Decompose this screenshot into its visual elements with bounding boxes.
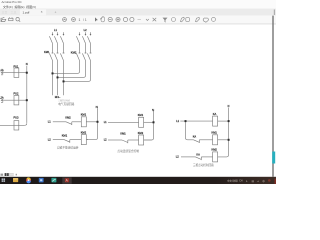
svg-text:KM2: KM2 (65, 116, 71, 120)
phase-swap jumper wire (53, 61, 80, 74)
control group 3 row 1 : wire L1 (180, 120, 212, 122)
svg-text:KM2: KM2 (212, 148, 218, 152)
active document tab (20, 9, 47, 16)
svg-text:▤: ▤ (252, 180, 254, 183)
junction group3 right row2 (228, 139, 230, 141)
svg-text:+: + (55, 10, 57, 14)
svg-text:KM1: KM1 (62, 134, 68, 138)
breaker QS contact blade (pole 3) (87, 36, 90, 43)
svg-text:/ 1: / 1 (83, 18, 87, 22)
window right edge (272, 16, 274, 177)
svg-text:L1: L1 (104, 120, 107, 124)
svg-text:文件(F) 编辑(E) 视图(V): 文件(F) 编辑(E) 视图(V) (3, 4, 36, 9)
svg-text:主页: 主页 (2, 10, 8, 15)
svg-text:L2A: L2A (0, 96, 4, 99)
wire (218, 139, 229, 141)
svg-text:L2: L2 (176, 155, 179, 159)
svg-text:KM2: KM2 (71, 51, 77, 55)
tab row (0, 9, 276, 16)
svg-text:KM2: KM2 (138, 131, 144, 135)
svg-text:◅: ◅ (257, 180, 259, 183)
NC contact KA (row2) (194, 140, 200, 143)
coil KM1 (213, 135, 218, 145)
wire (57, 43, 59, 53)
main circuit group B pole 1 (53, 32, 81, 73)
fuse FU1 body (14, 68, 19, 77)
svg-text:N: N (96, 105, 98, 109)
svg-text:FU2: FU2 (14, 91, 19, 95)
svg-text:电气互锁回路: 电气互锁回路 (58, 102, 74, 106)
svg-text:点动连续混合控制: 点动连续混合控制 (117, 149, 139, 153)
svg-text:×: × (41, 10, 43, 14)
svg-text:CH: CH (239, 181, 243, 183)
wire (63, 43, 65, 53)
svg-text:KM2: KM2 (81, 130, 87, 134)
svg-text:FU1: FU1 (14, 65, 19, 69)
junction fuse1/N (26, 72, 28, 74)
contact pivot ticks (main contacts) (52, 52, 92, 54)
junction group3 L1 (185, 120, 187, 122)
wire to N bus (2, 99, 27, 101)
supply terminal arrow (pole 2, L2 side) (85, 32, 87, 35)
svg-text:KM1: KM1 (212, 131, 218, 135)
wire to motor (63, 61, 65, 96)
teal icon (51, 178, 56, 183)
branch wire down from node (186, 121, 194, 140)
junction phase swap 3 (63, 80, 65, 82)
folder icon (13, 178, 18, 182)
wire to motor (57, 61, 59, 96)
svg-text:L2: L2 (84, 28, 87, 32)
junction group2/N (153, 121, 155, 123)
svg-text:KA: KA (193, 135, 197, 139)
supply terminal arrow (pole 1, L2 side) (79, 32, 81, 35)
junction phase swap 1 (52, 72, 54, 74)
active acrobat app (62, 177, 71, 183)
control group 1 row 1 : wire L1 (53, 121, 66, 123)
svg-text:L1: L1 (54, 28, 57, 32)
svg-text:工具: 工具 (11, 10, 17, 15)
source terminal arrow (1, 99, 3, 102)
wire (128, 139, 139, 141)
svg-text:三相点动控制回路: 三相点动控制回路 (193, 163, 214, 167)
wire to N (86, 121, 97, 123)
fuse FU3 body (14, 121, 19, 130)
breaker QS contact blade (pole 3) (60, 36, 63, 43)
junction dots (26, 72, 230, 141)
control group 2 row 2 : wire L2 (108, 139, 122, 141)
contactor KM2 main contact blade (pole 1) (76, 53, 79, 60)
svg-text:Acrobat Pro DC: Acrobat Pro DC (2, 0, 22, 4)
wire (201, 156, 212, 158)
coil KM2 (139, 135, 144, 145)
document canvas (0, 24, 273, 176)
junction phase swap 2 (57, 76, 59, 78)
svg-text:N: N (228, 105, 230, 108)
coil KA (213, 116, 218, 126)
breaker QS contact blade (pole 2) (82, 36, 85, 43)
svg-text:自锁不能连续运转: 自锁不能连续运转 (57, 146, 79, 150)
junction fuse2/N (26, 99, 28, 101)
coil KM2 (213, 152, 218, 162)
contactor KM2 main contact blade (pole 2) (82, 53, 85, 60)
svg-text:L2: L2 (48, 137, 51, 141)
svg-text:L1: L1 (48, 120, 51, 124)
NC contact KM2 (66, 122, 72, 125)
toolbar (0, 16, 276, 24)
supply terminal arrow (pole 2, L1 side) (57, 32, 59, 35)
contactor KM1 main contact blade (pole 1) (49, 53, 52, 60)
svg-text:KM1: KM1 (81, 113, 87, 117)
wire (72, 121, 82, 123)
NC contact KM1 (64, 140, 70, 143)
wire to N bus (2, 72, 27, 74)
strip above taskbar (window sliver) (1, 174, 4, 176)
control group 1 : N line (87, 108, 98, 139)
N bus wire (left) (26, 66, 28, 123)
control group 2 : N line (144, 111, 154, 140)
svg-text:FU3: FU3 (14, 116, 19, 120)
control group 1 row 2 : wire L2 (53, 139, 64, 141)
supply terminal arrow (pole 1, L1 side) (52, 32, 54, 35)
svg-text:N: N (152, 108, 154, 112)
phase-swap jumper wire (64, 61, 91, 82)
svg-text:1: 1 (79, 18, 81, 22)
main circuit group A pole 2 (54, 32, 58, 95)
breaker QS contact blade (pole 1) (76, 36, 79, 43)
wire (70, 139, 82, 141)
control group 3 row 3 : wire L2 (181, 156, 196, 158)
svg-text:L2: L2 (104, 138, 107, 142)
NC contact KM1 (122, 140, 128, 143)
svg-text:KA: KA (213, 112, 217, 116)
main circuit group A pole 3 (60, 32, 64, 95)
chrome icon (26, 178, 31, 183)
junction group1/N (97, 121, 99, 123)
wire (199, 139, 212, 141)
wire (90, 43, 92, 53)
captions (57, 98, 214, 166)
wire (52, 43, 54, 53)
main circuit group B pole 2 (58, 32, 87, 77)
contactor KM2 main contact blade (pole 3) (87, 53, 90, 60)
svg-text:KA: KA (196, 153, 200, 157)
wire (85, 43, 87, 53)
window title bar (0, 0, 276, 9)
svg-text:N: N (26, 62, 28, 66)
svg-text:L1: L1 (176, 119, 179, 123)
svg-text:1.pdf: 1.pdf (23, 10, 30, 14)
wire to N (144, 121, 154, 123)
main circuit group B pole 3 (64, 32, 92, 81)
svg-text:M3~: M3~ (55, 95, 61, 99)
supply terminal arrow (pole 3, L1 side) (63, 32, 65, 35)
control group 3 : right line (218, 108, 229, 157)
source terminal arrow (1, 71, 3, 74)
breaker QS contact blade (pole 1) (49, 36, 52, 43)
contactor KM1 main contact blade (pole 3) (60, 53, 63, 60)
blue icon (39, 178, 44, 183)
phase-swap jumper wire (58, 61, 86, 78)
wire from left edge (0, 124, 25, 126)
wire (79, 43, 81, 53)
supply terminal arrow (pole 3, L2 side) (90, 32, 92, 35)
main circuit group A pole 1 (49, 32, 53, 95)
svg-text:∧: ∧ (246, 180, 248, 183)
wire (86, 139, 88, 141)
fuse FU2 body (14, 96, 19, 105)
svg-text:KM1: KM1 (120, 132, 126, 136)
contactor KM1 main contact blade (pole 2) (54, 53, 57, 60)
svg-text:L1A: L1A (0, 69, 4, 72)
svg-text:KM1: KM1 (44, 50, 50, 54)
wire to right (218, 120, 229, 122)
NC contact KA (row3) (196, 157, 202, 160)
coil KM1 (139, 117, 144, 127)
start button (2, 178, 4, 180)
scrollbar thumb (272, 152, 275, 164)
junction group3 right row1 (228, 120, 230, 122)
control group 2 row 1 : wire L1 (108, 121, 139, 123)
coil KM1 (81, 117, 86, 127)
coil KM2 (81, 135, 86, 145)
breaker QS contact blade (pole 2) (54, 36, 57, 43)
corner wire to N bus (25, 123, 27, 125)
svg-text:KM1: KM1 (138, 113, 144, 117)
wire to motor (52, 61, 54, 96)
